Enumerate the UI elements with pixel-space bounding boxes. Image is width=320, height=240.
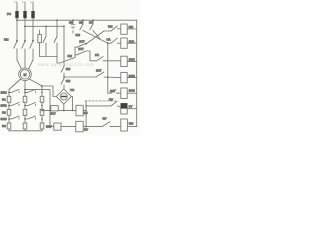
coil 3KM xyxy=(121,88,127,99)
node row1 dots xyxy=(8,92,10,94)
wire x86 vertical xyxy=(85,101,87,127)
dashed link xyxy=(85,100,116,102)
contact KM2 on x46 xyxy=(43,37,46,57)
svg-text:2KT: 2KT xyxy=(78,47,84,51)
wire coil2 right xyxy=(127,42,137,44)
contact 1KM row1 a xyxy=(9,89,19,92)
svg-text:1KM: 1KM xyxy=(129,58,136,62)
coil KT dark xyxy=(121,103,127,114)
svg-text:2KT: 2KT xyxy=(110,89,116,93)
wire boxKV1 right xyxy=(83,109,86,111)
resistor R col2 row2 xyxy=(23,109,27,115)
wire diamond bottom xyxy=(63,104,65,110)
svg-text:KA: KA xyxy=(107,37,111,41)
fuse FU phase 3 xyxy=(31,11,34,18)
contact 2KM row2 b xyxy=(25,103,36,106)
svg-text:KM: KM xyxy=(129,122,134,126)
rectifier VC diamond xyxy=(56,89,71,104)
contact alpha xyxy=(75,43,86,47)
contact drop3 blade xyxy=(90,24,93,31)
node rotor lead2 junction xyxy=(24,89,26,91)
coil 1KM xyxy=(121,56,127,66)
contact c4 long xyxy=(57,57,76,63)
contact KM3 on x64 lower xyxy=(61,79,64,90)
wire c4 link xyxy=(74,55,76,58)
wire drop x57 from bus xyxy=(56,20,58,36)
wire star bus bottom xyxy=(9,130,42,132)
resistor Rv box A xyxy=(51,106,58,111)
svg-text:1KA: 1KA xyxy=(129,39,135,43)
relay KV2 box xyxy=(76,121,83,132)
svg-text:2KM: 2KM xyxy=(129,74,136,78)
svg-text:VC: VC xyxy=(70,88,75,92)
wire row7 xyxy=(86,122,121,127)
svg-text:SB: SB xyxy=(69,21,73,25)
motor M outer circle xyxy=(19,68,32,81)
wire diamond right xyxy=(71,97,72,111)
wire coil4 right xyxy=(127,77,137,79)
wire control left vertical x64 xyxy=(63,26,65,66)
wire rotor lead 1 xyxy=(9,79,21,92)
coil KM1 xyxy=(121,24,127,34)
wire tap L2 xyxy=(25,25,64,27)
node tap L2 xyxy=(24,25,26,27)
resistor Rv box B xyxy=(54,123,61,130)
resistor R col1 row3 xyxy=(7,123,11,129)
coil KA1 xyxy=(121,38,127,48)
svg-text:KM: KM xyxy=(129,25,134,29)
contact 3KM row3 b xyxy=(25,116,36,119)
rectifier circle xyxy=(60,93,67,100)
wire coil5 right xyxy=(127,92,137,94)
svg-text:KA: KA xyxy=(89,21,93,25)
wire coil1 right xyxy=(127,28,137,30)
svg-text:KV: KV xyxy=(109,98,113,102)
svg-text:M: M xyxy=(24,73,27,77)
wire rotor mid branch xyxy=(25,90,50,127)
wire row2 contact xyxy=(108,38,121,43)
wire coil6 right xyxy=(127,108,137,110)
svg-text:KM: KM xyxy=(108,25,113,29)
svg-text:KM: KM xyxy=(68,54,73,58)
contact 1KM row1 b xyxy=(25,89,36,92)
resistor column 3 wire xyxy=(41,92,43,130)
wire diag d1 xyxy=(83,31,108,44)
svg-text:R2: R2 xyxy=(2,110,6,114)
svg-text:1KT: 1KT xyxy=(96,68,102,72)
wire row4 xyxy=(64,72,121,78)
motor M inner circle xyxy=(20,70,29,79)
coil 2KM xyxy=(121,72,127,82)
svg-text:www.dq-dianqi123.com: www.dq-dianqi123.com xyxy=(38,62,94,67)
wire U bottom xyxy=(40,56,57,58)
button SB1 symbol xyxy=(71,25,75,29)
button SB1 drop xyxy=(72,20,74,33)
wire rowB right xyxy=(83,126,86,128)
wire stator lead 2 xyxy=(24,49,26,68)
node bus tap L1 xyxy=(16,19,18,21)
svg-text:KM: KM xyxy=(66,79,71,83)
svg-text:KA: KA xyxy=(95,53,99,57)
svg-text:KM: KM xyxy=(76,33,81,37)
svg-text:SB: SB xyxy=(79,21,83,25)
svg-text:L3: L3 xyxy=(30,0,34,4)
node row2 dots xyxy=(8,105,10,107)
svg-text:KT: KT xyxy=(129,105,133,109)
wire rotor lead 3 xyxy=(29,79,42,92)
svg-text:R3: R3 xyxy=(2,124,6,128)
node row3 dots xyxy=(8,118,10,120)
wire row6 xyxy=(86,101,121,107)
wire phase L1 xyxy=(16,3,18,41)
contact KM3 on x64 upper xyxy=(61,67,64,79)
wire right rail xyxy=(136,20,138,126)
button SB2 drop xyxy=(82,20,84,30)
resistor R col1 row2 xyxy=(7,109,11,115)
wire control bus top xyxy=(17,19,137,21)
wire diag d3 xyxy=(93,31,100,39)
contactor KM main contact phase3 xyxy=(30,40,34,48)
svg-text:1KM: 1KM xyxy=(1,91,8,95)
relay KV1 box xyxy=(76,105,83,116)
contact drop3 xyxy=(92,20,94,24)
svg-text:FU: FU xyxy=(7,12,11,16)
wire branch to coil5 xyxy=(108,43,121,93)
wire fu2 leads xyxy=(39,30,41,57)
fuse FU phase 2 xyxy=(23,11,26,18)
contact beta xyxy=(75,51,90,61)
wire row3 xyxy=(90,57,121,61)
svg-text:1KV: 1KV xyxy=(50,111,56,115)
resistor R col2 row1 xyxy=(23,96,27,102)
svg-text:1KT: 1KT xyxy=(79,40,85,44)
resistor R col2 row3 xyxy=(23,123,27,129)
resistor R col3 row2 xyxy=(40,109,44,115)
resistor column 2 wire xyxy=(24,92,26,130)
resistor column 1 wire xyxy=(8,92,10,130)
wire coil3 right xyxy=(127,60,137,62)
wire stator lead 3 xyxy=(29,49,33,69)
wire stator lead 1 xyxy=(17,49,21,69)
coil 4KM xyxy=(121,119,128,131)
wire row1 to coil1 xyxy=(104,26,121,31)
svg-text:KV: KV xyxy=(103,117,107,121)
svg-text:KM: KM xyxy=(4,38,9,42)
wire phase L3 xyxy=(32,3,34,41)
svg-text:3KM: 3KM xyxy=(1,117,8,121)
rectifier mark xyxy=(62,96,66,98)
wire rotor lead 2 xyxy=(24,81,26,93)
fuse FU phase 1 xyxy=(15,11,18,18)
contact KM2 on x57 xyxy=(54,37,57,64)
wire rotor to rectifier upper xyxy=(42,86,56,97)
svg-text:3KM: 3KM xyxy=(129,88,136,92)
wire rowB mid xyxy=(61,126,76,128)
resistor R col3 row3 xyxy=(40,123,44,129)
svg-text:KV: KV xyxy=(84,128,88,132)
fuse FU2 box xyxy=(38,35,42,43)
resistor R col1 row1 xyxy=(7,96,11,102)
wire alpha-beta link xyxy=(74,47,76,55)
svg-text:L2: L2 xyxy=(22,0,26,4)
svg-text:2KM: 2KM xyxy=(1,104,8,108)
wire coil7 right xyxy=(127,126,136,128)
svg-text:KM: KM xyxy=(66,67,71,71)
resistor R col3 row1 xyxy=(40,96,44,102)
contactor KM main contact phase1 xyxy=(14,40,18,49)
contactor KM main contact phase2 xyxy=(22,40,26,48)
contact 2KM row2 a xyxy=(9,103,19,106)
svg-text:L1: L1 xyxy=(14,0,18,4)
wire diag d2 xyxy=(86,31,104,44)
contact SB2 blade xyxy=(80,24,83,31)
wire rowB left xyxy=(50,126,54,128)
wire phase L2 xyxy=(24,3,26,41)
contact 3KM row3 a xyxy=(9,116,19,119)
node rotor lead3 junction xyxy=(41,85,43,87)
wire drop x46 xyxy=(45,26,47,36)
svg-text:R1: R1 xyxy=(2,97,6,101)
wire rowA xyxy=(42,109,76,111)
